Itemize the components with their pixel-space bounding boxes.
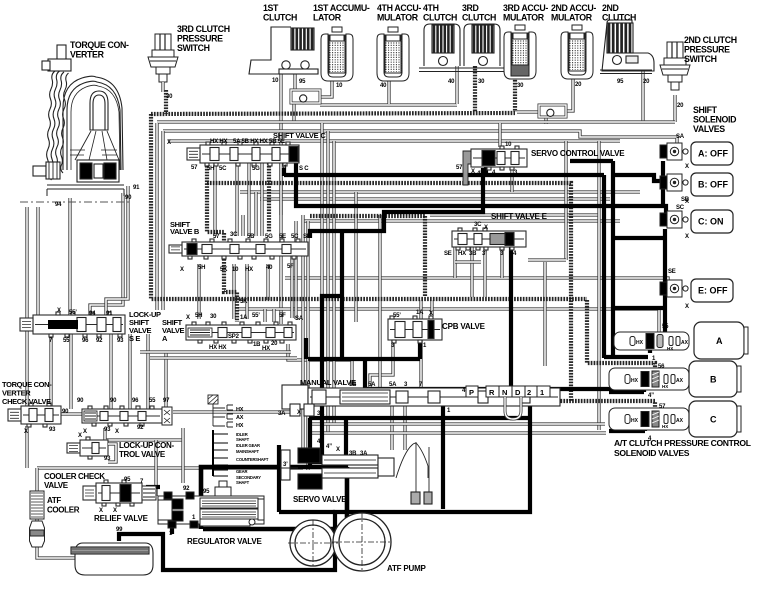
svg-text:IDLER GEAR: IDLER GEAR — [236, 443, 260, 448]
wire TC to lock-up valve left — [36, 207, 39, 315]
svg-text:X: X — [685, 199, 689, 205]
hatched drain square — [208, 395, 218, 404]
wire cooler line — [37, 466, 303, 469]
shift valve E — [452, 228, 526, 250]
wire valve C port 5H drop — [213, 163, 216, 236]
svg-text:55: 55 — [63, 338, 70, 344]
relief valve spring right — [142, 486, 156, 500]
shift valve C — [187, 142, 299, 166]
svg-text:X: X — [78, 433, 82, 439]
svg-text:SERVO CONTROL VALVE: SERVO CONTROL VALVE — [531, 149, 625, 158]
svg-text:GEAR: GEAR — [236, 469, 247, 474]
svg-text:20: 20 — [271, 341, 278, 347]
2nd clutch pressure switch — [660, 42, 690, 90]
svg-text:92: 92 — [96, 338, 103, 344]
wire manual valve 7 feed — [419, 300, 422, 387]
wire thick link y161 — [570, 159, 613, 163]
wire 4th accumulator 40 — [387, 78, 390, 104]
wire switch stub — [161, 82, 164, 92]
wire valve A SA feed — [294, 221, 297, 319]
torque converter axis line — [20, 201, 132, 203]
wire row B drain link — [609, 390, 644, 394]
wire hatched left vertical and band y299 — [151, 114, 587, 299]
svg-text:SC: SC — [676, 205, 685, 211]
svg-text:X: X — [167, 140, 171, 146]
wire orifice2 left link — [517, 110, 539, 113]
wire center vertical 356 — [354, 192, 357, 322]
wire solenoid B signal to shift valve B SB — [310, 168, 483, 238]
lock-up control valve end cap — [162, 407, 172, 425]
wire valve B 5H drop — [197, 264, 200, 319]
wire center vertical 380 — [378, 215, 381, 387]
wire main line SC to solenoid C — [296, 163, 666, 213]
solenoid A status box — [691, 142, 733, 165]
svg-text:D: D — [515, 388, 521, 397]
wire CPB 1 link — [308, 357, 420, 361]
wire 3rd clutch 30 drain (hatched) — [473, 66, 477, 112]
wire center vertical 334 — [332, 141, 335, 424]
svg-text:3C: 3C — [474, 222, 482, 228]
cooler check valve drain loop — [108, 444, 116, 462]
svg-text:SE: SE — [444, 251, 452, 257]
svg-text:AX: AX — [676, 418, 684, 424]
svg-text:96: 96 — [132, 398, 139, 404]
wire CPB X feed — [430, 300, 433, 316]
wire valve B 5F drop — [290, 253, 293, 318]
pressure control solenoid B — [609, 368, 689, 390]
svg-text:1B: 1B — [349, 382, 357, 388]
svg-text:HX: HX — [636, 340, 644, 346]
svg-text:1B: 1B — [253, 342, 261, 348]
wire bus y199 — [260, 197, 610, 200]
wire manual to servo 3A — [403, 406, 406, 450]
svg-text:X: X — [57, 308, 61, 314]
orifice with check ball (2nd clutch) — [539, 105, 566, 117]
cooler check valve — [67, 437, 108, 459]
torque converter check valve — [8, 403, 61, 427]
svg-text:X: X — [186, 315, 190, 321]
drain symbol block AX HX — [213, 404, 233, 427]
wire center vertical 328 — [326, 131, 329, 433]
svg-text:X: X — [685, 304, 689, 310]
wire bus y131 to solenoid A — [163, 131, 677, 152]
wire TC 91 to port 91 — [106, 186, 128, 315]
wire hatched band y183 — [207, 183, 571, 401]
svg-text:HX: HX — [236, 423, 244, 429]
svg-text:5K: 5K — [240, 299, 248, 305]
svg-text:SB: SB — [303, 234, 312, 240]
wire valve E 3B drop — [470, 247, 473, 297]
svg-text:30: 30 — [166, 94, 173, 100]
wire drop — [241, 215, 244, 236]
wire row A link — [604, 355, 648, 359]
svg-text:55’: 55’ — [393, 313, 401, 319]
svg-text:X: X — [113, 508, 117, 514]
svg-text:3RD ACCU-MULATOR: 3RD ACCU-MULATOR — [503, 3, 548, 23]
wire cooler to pan — [37, 549, 83, 558]
svg-text:92: 92 — [137, 425, 144, 431]
svg-text:3’: 3’ — [283, 462, 288, 468]
svg-text:5C: 5C — [291, 234, 299, 240]
svg-text:SP2: SP2 — [228, 334, 240, 340]
wire valve A 1B to manual valve — [288, 344, 352, 385]
svg-text:1A: 1A — [416, 310, 424, 316]
svg-text:20: 20 — [643, 79, 650, 85]
pressure control box A — [694, 322, 748, 359]
wire lock-up drop 7 — [49, 334, 52, 406]
shaft lubrication comb — [213, 430, 228, 476]
ATF cooler — [30, 491, 44, 519]
svg-text:10: 10 — [232, 267, 239, 273]
svg-text:X: X — [99, 508, 103, 514]
4th clutch — [419, 24, 465, 72]
svg-text:3A: 3A — [278, 411, 286, 417]
regulator valve — [158, 481, 264, 528]
wire drop to regulator 95 — [344, 418, 348, 467]
svg-text:P: P — [469, 388, 474, 397]
svg-text:95: 95 — [299, 79, 306, 85]
wire drain to regulator — [154, 440, 157, 496]
svg-text:C: ON: C: ON — [698, 217, 724, 227]
3rd clutch pressure switch — [148, 34, 178, 82]
svg-text:HX: HX — [458, 251, 466, 257]
wire hatched band y114 — [151, 113, 515, 114]
svg-text:95: 95 — [617, 79, 624, 85]
svg-text:A: A — [716, 336, 723, 346]
svg-text:B: OFF: B: OFF — [698, 180, 728, 190]
svg-text:5H: 5H — [198, 265, 205, 271]
wire CPB 3 to manual valve 5A — [370, 340, 393, 387]
svg-text:R: R — [489, 388, 495, 397]
svg-text:95: 95 — [124, 477, 131, 483]
svg-text:SHAFT: SHAFT — [236, 480, 250, 485]
svg-text:N: N — [502, 388, 507, 397]
svg-text:93: 93 — [117, 338, 124, 344]
wire regulator 92 feed — [181, 428, 184, 483]
svg-text:3’: 3’ — [482, 251, 487, 257]
svg-text:55’: 55’ — [252, 313, 260, 319]
svg-text:5A 5B HX HX 5B 5E: 5A 5B HX HX 5B 5E — [233, 139, 285, 145]
svg-text:X: X — [83, 429, 87, 435]
2nd accumulator — [561, 25, 593, 79]
svg-text:SA: SA — [295, 316, 304, 322]
wire TC check valve drain — [25, 426, 28, 468]
wire feed to servo valve 4 prime — [312, 296, 342, 462]
svg-text:99: 99 — [116, 527, 123, 533]
lock-up shift valve — [20, 312, 125, 337]
shift solenoid A — [660, 143, 688, 160]
3rd clutch — [459, 24, 505, 72]
1st accumulator — [321, 27, 353, 81]
svg-text:REGULATOR VALVE: REGULATOR VALVE — [187, 537, 262, 546]
wire row C piston drop — [643, 425, 647, 431]
wire bus y352 — [140, 350, 291, 353]
wire shift valve A 20 drop — [304, 338, 308, 359]
solenoid C status box — [691, 210, 733, 233]
svg-text:5F: 5F — [287, 264, 294, 270]
svg-text:HX: HX — [662, 424, 668, 429]
svg-text:5K: 5K — [220, 267, 228, 273]
wire valve E SE drop to solenoid E bus — [453, 247, 456, 278]
svg-text:CPB VALVE: CPB VALVE — [442, 322, 486, 331]
svg-text:B: B — [710, 375, 717, 385]
wire left bus 308 — [306, 221, 309, 470]
svg-text:SHAFT: SHAFT — [236, 437, 250, 442]
wire bus y104 — [320, 103, 457, 106]
svg-text:4”: 4” — [326, 444, 332, 450]
pressure control box C — [689, 401, 741, 437]
servo control valve hatched end — [463, 151, 471, 185]
svg-text:5H: 5H — [195, 313, 202, 319]
wire CPB 1 drop — [418, 338, 422, 359]
svg-text:96: 96 — [82, 338, 89, 344]
wire TC check to lock-up control link — [61, 412, 82, 415]
svg-text:AX: AX — [676, 378, 684, 384]
svg-text:40: 40 — [448, 79, 455, 85]
orifice with check ball (1st clutch) — [291, 90, 320, 103]
wire solenoid A to B — [661, 161, 665, 204]
wire servo control valve 10 feed — [498, 123, 501, 147]
wire valve E 3' drop — [483, 247, 486, 297]
svg-text:5B: 5B — [247, 234, 255, 240]
wire feed vertical 342 — [340, 231, 344, 359]
wire thick bus y175 — [284, 173, 604, 177]
wire regulator 1 drop — [170, 527, 174, 534]
svg-text:HX: HX — [236, 407, 244, 413]
svg-text:92: 92 — [183, 486, 190, 492]
wire orifice2 to bus — [544, 117, 547, 124]
svg-text:3A: 3A — [317, 411, 325, 417]
wire lock-up drop 97 — [164, 352, 167, 407]
wire manual valve bus to row B — [365, 387, 645, 391]
wire bus y358 — [150, 356, 297, 359]
svg-text:X: X — [685, 234, 689, 240]
wire valve A 1A feed — [263, 309, 266, 322]
4th accumulator — [377, 27, 409, 81]
wire valve B 40 drop — [266, 264, 269, 300]
gear position indicator P R N D 2 1 — [466, 386, 550, 397]
CPB valve — [388, 316, 442, 343]
wire row C drain link — [609, 429, 645, 433]
wire TC check valve feed — [25, 207, 28, 406]
wire TC case left — [68, 198, 71, 315]
wire 1st clutch 10 feed — [279, 74, 282, 324]
wire 3rd clutch pressure switch drain 30 (hatched) — [164, 90, 168, 114]
wire 2nd clutch pressure switch 20 — [673, 95, 676, 122]
svg-text:HX: HX — [662, 384, 668, 389]
wire bus y221 — [303, 219, 620, 222]
wire to solenoid B — [613, 175, 661, 181]
wire bus y122 — [157, 120, 675, 123]
svg-text:5E: 5E — [279, 234, 286, 240]
svg-text:HX HX: HX HX — [210, 139, 228, 145]
lock-up shift valve spool bar — [48, 320, 78, 329]
wire 5K hatched run into shift valve A — [207, 163, 237, 322]
ATF cooler funnel — [30, 521, 45, 547]
wire lock-up drop 92 — [128, 334, 131, 409]
svg-text:HX: HX — [245, 267, 253, 273]
wire 2nd clutch 20 — [641, 68, 644, 122]
ATF pump — [288, 512, 392, 572]
wire center vertical 322 — [320, 123, 323, 433]
svg-text:40: 40 — [380, 83, 387, 89]
svg-text:C: C — [710, 415, 717, 425]
svg-text:97: 97 — [163, 398, 170, 404]
wire valve E 3 drop — [500, 247, 503, 278]
svg-text:S C: S C — [299, 166, 309, 172]
wire orifice to bus — [292, 103, 295, 122]
2nd clutch — [600, 20, 654, 74]
svg-text:93: 93 — [104, 456, 111, 462]
wire 1st clutch 95 — [293, 74, 296, 90]
manual valve — [282, 385, 560, 416]
wire servo control valve 4 drop — [484, 164, 488, 176]
svg-text:SA: SA — [676, 134, 685, 140]
svg-text:5G: 5G — [265, 234, 273, 240]
svg-text:SHIFT VALVE E: SHIFT VALVE E — [491, 212, 548, 221]
1st clutch — [249, 27, 318, 74]
svg-text:91: 91 — [106, 311, 113, 317]
wire valve C port 5G drop — [260, 163, 263, 236]
wire hatched vertical 425 — [423, 216, 427, 297]
wire left vertical 157 — [155, 123, 158, 310]
svg-text:90: 90 — [77, 398, 84, 404]
wire bus y412 — [173, 410, 292, 413]
wire hatched bus y216 — [310, 214, 425, 218]
shift solenoid E — [660, 280, 688, 297]
wire bus y192 — [240, 190, 640, 193]
wire row B piston drop — [642, 388, 646, 392]
wire 1st accumulator 10 — [320, 78, 332, 97]
wire shift valve E 4 to manual valve detent — [509, 247, 513, 396]
wire row A piston — [648, 348, 652, 353]
svg-text:SE: SE — [668, 269, 676, 275]
svg-text:57: 57 — [659, 404, 666, 410]
svg-text:56: 56 — [658, 364, 665, 370]
wire hatched feed to row B — [587, 300, 655, 371]
svg-text:X: X — [180, 267, 184, 273]
svg-text:3A: 3A — [360, 451, 368, 457]
wire 3rd accumulator 30 drain (hatched) — [513, 77, 517, 112]
svg-text:10: 10 — [272, 78, 279, 84]
svg-text:COUNTERSHAFT: COUNTERSHAFT — [236, 457, 269, 462]
svg-text:90: 90 — [62, 409, 69, 415]
shift solenoid C — [660, 211, 688, 228]
wire relief to regulator — [146, 485, 160, 489]
wire suction line 99 — [119, 389, 530, 570]
wire servo valve left drain — [277, 445, 281, 512]
svg-text:2: 2 — [527, 388, 531, 397]
svg-text:HX HX: HX HX — [209, 345, 227, 351]
wire solenoid C to E to row A — [663, 229, 667, 332]
wire valve E local link — [455, 260, 481, 263]
svg-text:X: X — [336, 447, 340, 453]
svg-text:57: 57 — [213, 234, 220, 240]
svg-text:RELIEF VALVE: RELIEF VALVE — [94, 514, 149, 523]
lock-up control valve — [82, 406, 162, 426]
servo valve — [280, 442, 432, 504]
svg-text:4’: 4’ — [317, 439, 322, 445]
svg-text:4’: 4’ — [477, 171, 482, 177]
wire branch to solenoid C bottom — [613, 236, 665, 240]
svg-text:10: 10 — [336, 83, 343, 89]
servo control valve — [471, 146, 527, 170]
solenoid B status box — [691, 173, 733, 196]
wire TC 90 to port 94 — [90, 193, 123, 315]
3rd accumulator — [504, 25, 536, 79]
wire servo control 3 drop — [510, 167, 513, 192]
wire valve A 55' feed — [272, 309, 275, 322]
solenoid E status box — [691, 279, 733, 302]
svg-text:AX: AX — [681, 340, 689, 346]
wire bus y141 — [168, 139, 620, 142]
wire right bus vertical — [597, 141, 600, 430]
wire hatched valve C to valve B drop — [267, 163, 271, 232]
svg-text:MAINSHAFT: MAINSHAFT — [236, 449, 259, 454]
svg-text:93: 93 — [49, 427, 56, 433]
shift valve A — [186, 322, 296, 343]
detent U pipe — [505, 397, 521, 419]
svg-text:20: 20 — [575, 82, 582, 88]
svg-text:MANUAL VALVE: MANUAL VALVE — [300, 378, 356, 387]
svg-text:E: OFF: E: OFF — [698, 286, 728, 296]
svg-text:X: X — [297, 410, 301, 416]
torque converter — [33, 45, 124, 196]
svg-text:SERVO VALVE: SERVO VALVE — [293, 495, 347, 504]
wire drop — [254, 192, 257, 236]
svg-text:4’’: 4’’ — [648, 393, 654, 399]
svg-text:HX: HX — [631, 418, 639, 424]
wire solenoid feed vertical right — [611, 161, 615, 358]
svg-text:30: 30 — [478, 79, 485, 85]
wire cooler bottom — [35, 518, 38, 549]
wire manual to servo 3B — [390, 406, 393, 450]
svg-text:57: 57 — [191, 165, 198, 171]
wire regulator box bottom — [203, 527, 347, 532]
wire lock-up drop 93 — [146, 334, 149, 409]
wire lock-up drop 55 — [69, 334, 72, 409]
svg-text:93: 93 — [104, 427, 111, 433]
wire valve E right link 2 — [528, 258, 566, 261]
pressure control box B — [689, 361, 741, 397]
wire left vertical 163 — [161, 131, 164, 310]
svg-text:95: 95 — [203, 489, 210, 495]
svg-text:X: X — [471, 169, 475, 175]
shift valve B — [169, 239, 308, 259]
wire bus y424 — [310, 422, 605, 425]
svg-text:X: X — [685, 164, 689, 170]
svg-text:55’: 55’ — [69, 310, 77, 316]
svg-text:55: 55 — [662, 324, 669, 330]
svg-text:ATF PUMP: ATF PUMP — [387, 564, 427, 573]
svg-text:94: 94 — [89, 311, 96, 317]
wire valve C port drop — [247, 163, 250, 236]
wire row A 55 feed — [238, 309, 659, 333]
wire valve B HX drop — [245, 264, 248, 319]
wire hatched 4'' feed to solenoid C row — [401, 401, 655, 411]
wire servo drain to suction — [279, 510, 335, 514]
wire right-center vertical 545 — [543, 262, 546, 366]
svg-text:3B: 3B — [349, 451, 357, 457]
pressure control solenoid A — [614, 332, 689, 351]
svg-text:A: OFF: A: OFF — [698, 149, 728, 159]
wire right-center vertical 566 — [564, 141, 567, 260]
svg-text:5F: 5F — [279, 313, 286, 319]
shift solenoid B — [660, 174, 688, 191]
svg-text:5C: 5C — [219, 166, 227, 172]
svg-text:HX: HX — [262, 346, 270, 352]
wire bus y278 solenoid E feed — [285, 278, 668, 284]
